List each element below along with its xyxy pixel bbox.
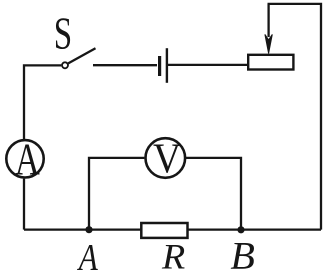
ammeter U1 circle — [6, 140, 43, 177]
rheostat slider wire (vertical from top rail) — [267, 4, 269, 37]
wire: voltmeter branch left leg (node A up and right to voltmeter) — [89, 158, 144, 230]
svg-text:A: A — [15, 135, 40, 185]
svg-text:B: B — [230, 235, 255, 271]
node A junction dot — [85, 226, 92, 233]
svg-text:A: A — [76, 237, 98, 271]
wire: ammeter bottom down to bottom-left corner — [23, 179, 25, 230]
wire: voltmeter branch right leg (voltmeter right down to node B) — [186, 158, 241, 230]
svg-text:R: R — [161, 236, 185, 271]
rheostat body (variable resistor box) — [248, 55, 293, 70]
svg-text:S: S — [54, 9, 72, 59]
wire: switch right contact to battery — [93, 64, 157, 66]
wire: top rail to right side rail — [268, 4, 322, 230]
battery: long (positive) plate — [166, 48, 168, 83]
switch S pivot circle — [62, 62, 68, 68]
voltmeter letter V — [153, 136, 181, 183]
switch S lever (open blade) — [68, 48, 95, 63]
rheostat slider arrowhead — [265, 34, 272, 53]
resistor R body — [141, 223, 187, 238]
label R — [161, 236, 185, 271]
battery: short (negative) plate — [158, 56, 161, 76]
wire: top-left corner from switch down to ammeter — [24, 65, 61, 139]
ammeter letter A — [15, 135, 40, 185]
node B junction dot — [237, 226, 244, 233]
wire: bottom rail from left corner to right corner — [24, 228, 321, 230]
voltmeter U2 circle — [146, 138, 186, 178]
label B (node B) — [230, 235, 255, 271]
label S — [54, 9, 72, 59]
label A (node A) — [76, 237, 98, 271]
wire: battery to rheostat left terminal — [168, 64, 248, 66]
svg-text:V: V — [153, 136, 181, 183]
